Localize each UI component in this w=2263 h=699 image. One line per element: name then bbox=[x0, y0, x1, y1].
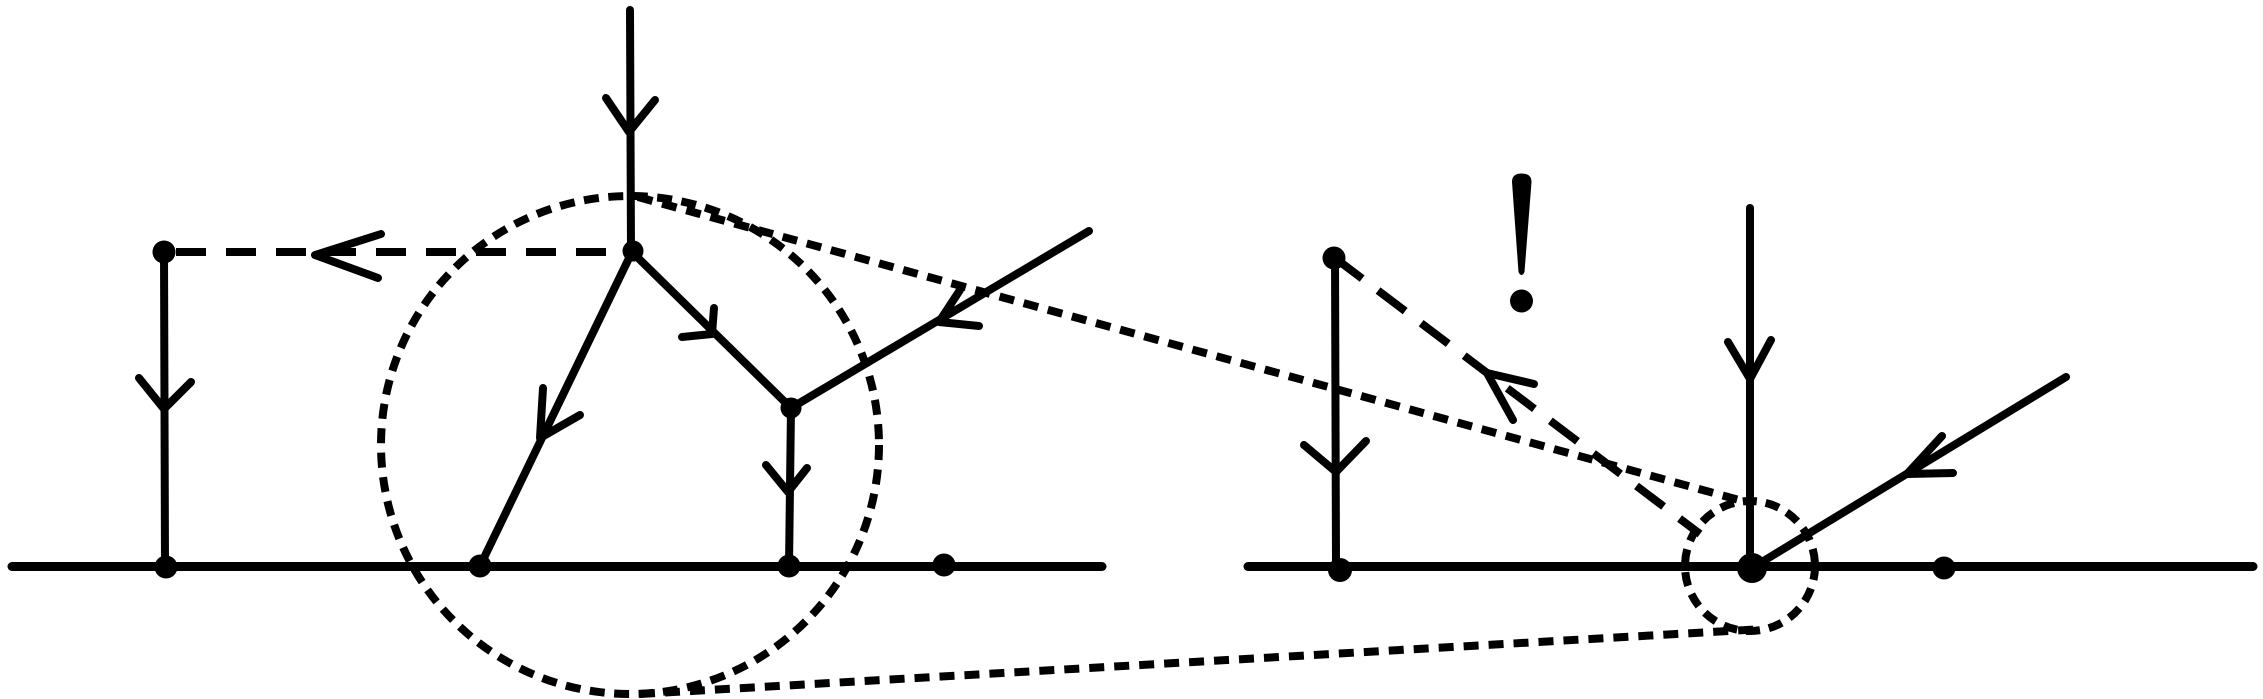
wire edge from upper right into contracted vertex bbox=[1752, 377, 2066, 568]
node A (top of left vertical) bbox=[153, 241, 176, 264]
node on right baseline bbox=[1933, 557, 1956, 580]
arrow on right figure vertical edge bbox=[1304, 441, 1366, 472]
wire dotted cone lower (magnifier link) bbox=[640, 629, 1763, 694]
arrow on dashed horizontal (pointing left) bbox=[315, 234, 381, 278]
wire top vertical into contracted vertex bbox=[1746, 208, 1754, 567]
wire top vertical into root node bbox=[630, 10, 631, 252]
arrow on top vertical bbox=[606, 98, 655, 132]
wire dashed horizontal from root node to node A bbox=[176, 248, 630, 256]
node contracted vertex on baseline bbox=[1737, 553, 1767, 583]
wire dashed edge from node B to contracted vertex bbox=[1335, 258, 1700, 534]
node root N1 bbox=[623, 241, 644, 262]
node baseline left child bbox=[469, 555, 492, 578]
wire edge N1 to N2 bbox=[632, 252, 791, 408]
wire vertical edge left (node A to baseline) bbox=[164, 252, 165, 566]
arrow on edge N2-baseline bbox=[766, 465, 807, 492]
node N2 bbox=[781, 398, 802, 419]
wire edge N2 to baseline bbox=[789, 408, 791, 566]
arrow on right slanted edge bbox=[1907, 436, 1953, 474]
node B (top of vertical) bbox=[1323, 247, 1346, 270]
wire edge from upper right into N2 bbox=[791, 231, 1089, 408]
wire baseline right bbox=[1248, 562, 2253, 571]
node on baseline right of tree bbox=[933, 554, 956, 577]
wire baseline left bbox=[12, 562, 1102, 571]
arrow on edge N1-N2 bbox=[682, 308, 714, 337]
node on baseline under B bbox=[1328, 558, 1352, 582]
wire edge N1 to baseline left child bbox=[480, 252, 632, 566]
node baseline under N2 bbox=[778, 555, 801, 578]
arrow on N1 left child edge bbox=[540, 388, 580, 438]
node on baseline under A bbox=[155, 556, 178, 579]
arrow on dashed edge (pointing up-left) bbox=[1487, 373, 1534, 420]
dashed small circle around contracted vertex bbox=[1685, 501, 1815, 631]
arrow on left vertical edge bbox=[139, 378, 191, 409]
wire dotted cone upper (magnifier link) bbox=[638, 197, 1750, 503]
arrow on upper right edge (pointing to N2) bbox=[939, 290, 979, 326]
dashed magnifier circle around tree bbox=[381, 196, 879, 694]
arrow on right top vertical bbox=[1728, 340, 1771, 379]
wire vertical edge right figure (node B to baseline) bbox=[1335, 258, 1336, 566]
exclamation mark bbox=[1512, 174, 1532, 276]
